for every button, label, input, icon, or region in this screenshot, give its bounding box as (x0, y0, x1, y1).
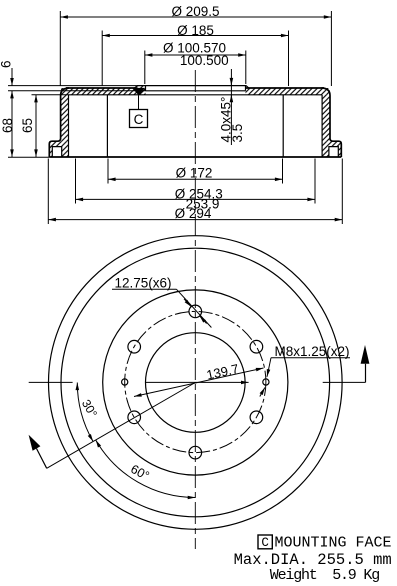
svg-text:Weight 5.9 Kg: Weight 5.9 Kg (270, 567, 379, 584)
svg-text:Ø 185: Ø 185 (177, 23, 214, 38)
svg-text:139.7: 139.7 (205, 361, 240, 383)
svg-text:68: 68 (0, 118, 15, 133)
svg-text:Ø 172: Ø 172 (176, 166, 213, 181)
svg-text:100.500: 100.500 (180, 53, 229, 68)
svg-text:C: C (261, 536, 269, 550)
svg-text:6: 6 (0, 60, 14, 68)
svg-text:M8x1.25(x2): M8x1.25(x2) (275, 344, 350, 359)
svg-text:65: 65 (20, 118, 35, 133)
svg-text:3.5: 3.5 (230, 124, 245, 143)
svg-text:Ø 294: Ø 294 (175, 206, 212, 221)
svg-text:C: C (134, 112, 144, 127)
svg-text:MOUNTING FACE: MOUNTING FACE (275, 535, 392, 552)
svg-text:Ø 209.5: Ø 209.5 (171, 4, 219, 19)
svg-text:12.75(x6): 12.75(x6) (115, 275, 172, 290)
